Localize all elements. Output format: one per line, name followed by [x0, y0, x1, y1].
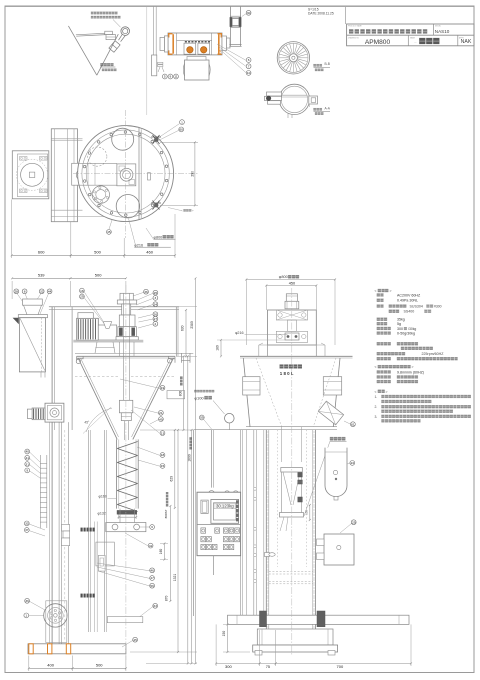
title text (product name faux CJK)	[349, 29, 353, 33]
front: ladder	[39, 455, 41, 528]
front: hopper body	[19, 318, 45, 372]
svg-text:DRAWING NO: DRAWING NO	[348, 36, 360, 39]
front: tube bottom outlet	[119, 509, 121, 523]
front: tube bottom dark band	[117, 510, 137, 514]
spec: filling method	[377, 342, 380, 345]
left vertical plate	[152, 55, 157, 76]
svg-text:30: 30	[247, 11, 251, 15]
front: rail verticals	[58, 422, 60, 652]
front: auger spiral	[117, 442, 137, 512]
front: 45deg angle arc	[86, 408, 112, 432]
svg-text:13: 13	[161, 431, 165, 435]
svg-text:539: 539	[38, 273, 45, 278]
svg-text:630: 630	[181, 325, 185, 331]
suction pipe vertical lines	[152, 7, 154, 56]
svg-text:...: ...	[414, 40, 417, 44]
front: small hopper top-left	[23, 299, 43, 305]
side: chute (slanted)	[318, 401, 343, 425]
svg-text:800ST: 800ST	[164, 509, 168, 518]
right shaft	[222, 36, 227, 51]
plan: box inner circle	[21, 163, 44, 186]
svg-text:33: 33	[25, 522, 29, 526]
balloon 5	[162, 74, 167, 79]
side: vacuum vessel capsule	[325, 448, 347, 497]
svg-text:41: 41	[25, 456, 29, 460]
side: 150 dim base	[227, 624, 229, 652]
svg-text:47: 47	[150, 576, 154, 580]
svg-text:225rpm/60HZ: 225rpm/60HZ	[422, 352, 445, 356]
balloon 30	[246, 10, 251, 15]
balloon 45	[133, 637, 138, 642]
plan: clamp symbol bottom right	[151, 201, 161, 210]
title block outer	[347, 24, 474, 46]
side: arm bar at base	[228, 615, 410, 624]
svg-text:29: 29	[80, 295, 84, 299]
svg-text:56: 56	[150, 584, 154, 588]
svg-text:B-B: B-B	[325, 62, 330, 66]
svg-text:32: 32	[40, 289, 44, 293]
balloon 56	[150, 583, 155, 588]
svg-text:/30kg: /30kg	[408, 327, 416, 331]
balloon 61	[351, 422, 356, 427]
svg-text:34: 34	[154, 302, 158, 306]
balloon 46	[150, 568, 155, 573]
clamp body small dark mark row	[185, 41, 210, 43]
motor under clamp body	[185, 60, 210, 80]
spec: sonota row	[389, 310, 392, 313]
svg-text:DATE 2008.11.25: DATE 2008.11.25	[308, 12, 334, 16]
svg-text:<: <	[375, 289, 377, 293]
front: bottom dim 400/500	[28, 656, 30, 672]
svg-text:44: 44	[48, 289, 52, 293]
front: top dim 539/500	[11, 281, 13, 299]
front: tank cone	[78, 358, 117, 439]
svg-text:φ216: φ216	[235, 331, 244, 335]
panel display unit	[211, 500, 239, 524]
balloon 7	[246, 64, 251, 69]
side: left frame rails	[240, 430, 242, 615]
plan: bottom dimension 600/500/460	[11, 200, 13, 259]
svg-text:700: 700	[337, 664, 344, 669]
side: frame lower block	[276, 331, 307, 342]
svg-text:500: 500	[96, 663, 103, 668]
svg-text:15: 15	[161, 464, 165, 468]
detail note text: tank SUS eyebolt	[91, 12, 93, 14]
svg-text:49: 49	[159, 417, 163, 421]
side: bottom dims 300/75/700	[215, 624, 217, 666]
svg-text:29: 29	[352, 520, 356, 524]
title block row divider	[347, 34, 474, 36]
plan: flange bolt dots	[83, 131, 168, 217]
balloon 25	[153, 290, 158, 295]
plan: tank outer circle	[78, 126, 174, 222]
svg-text:460: 460	[146, 250, 153, 255]
panel pole below	[213, 556, 215, 575]
side: base plate	[253, 645, 338, 652]
balloon 18	[160, 453, 165, 458]
svg-text:28: 28	[15, 289, 19, 293]
plan: lift column rect	[51, 129, 77, 222]
svg-text:SS400: SS400	[404, 310, 415, 314]
pipe lower flange	[229, 44, 241, 46]
svg-text:500: 500	[95, 273, 102, 278]
balloon 21	[159, 410, 164, 415]
front: right sensor bracket	[167, 391, 185, 399]
duct circle	[225, 413, 235, 423]
front: auger tube	[116, 439, 118, 508]
svg-text:NAK: NAK	[461, 39, 472, 45]
side: lower column walls with rivets	[265, 430, 267, 643]
svg-text:φ800: φ800	[279, 274, 289, 279]
svg-text:9.8m/min (60HZ): 9.8m/min (60HZ)	[397, 370, 424, 374]
balloon 24	[350, 461, 355, 466]
front: main frame verticals	[51, 307, 53, 652]
front: carriage dark block upper	[81, 528, 95, 532]
plan: top inlet circle	[112, 128, 134, 150]
svg-text:>: >	[390, 289, 392, 293]
svg-text:>: >	[412, 365, 414, 369]
balloon 1	[180, 120, 185, 125]
front: hopper corner dark wedge	[13, 318, 19, 325]
side: clamp assembly inside column	[281, 468, 303, 473]
balloon 36	[25, 598, 30, 603]
balloon 36	[144, 289, 149, 294]
balloon 19	[160, 385, 165, 390]
svg-text:1: 1	[25, 614, 27, 618]
svg-text:63: 63	[153, 604, 157, 608]
duct note text	[194, 390, 196, 392]
side: pedestal	[257, 629, 333, 645]
svg-text:<: <	[375, 365, 377, 369]
front: support trapezoid	[95, 342, 115, 353]
side: tank capacity text	[280, 365, 284, 369]
front: long thin rect	[107, 617, 143, 623]
front: spindle housing to plate	[119, 342, 121, 356]
svg-text:600: 600	[38, 250, 45, 255]
plan: center lines	[73, 173, 199, 175]
eyebolt shaft	[119, 34, 126, 41]
svg-text:5g: 5g	[397, 322, 401, 326]
balloon 44	[47, 289, 52, 294]
svg-text:45: 45	[107, 230, 111, 234]
leader to duct circle	[213, 401, 225, 415]
svg-text:A-A: A-A	[325, 106, 331, 110]
clamp body orange corner gussets	[168, 33, 222, 55]
clamp B-B view (radial) outer circle	[277, 42, 309, 74]
clamp orange roller left	[187, 47, 193, 53]
svg-text:150: 150	[222, 631, 226, 637]
side: box brackets	[317, 539, 325, 546]
side: tank flange rings	[243, 377, 260, 395]
svg-text:21: 21	[159, 411, 163, 415]
svg-text:800: 800	[178, 391, 182, 397]
leader to eyebolt	[113, 20, 121, 28]
plan: bracket arm inside circle	[78, 162, 117, 164]
svg-text:<: <	[375, 390, 377, 394]
plan: bottom inlet circle	[116, 195, 139, 218]
front: center shaft	[122, 293, 124, 400]
svg-text:35kg: 35kg	[397, 318, 405, 322]
svg-text:2380: 2380	[190, 321, 194, 329]
svg-text:AC200V 60HZ: AC200V 60HZ	[397, 293, 421, 297]
A-A actuator dark nut	[266, 96, 271, 101]
balloon 28	[14, 289, 19, 294]
side: right control box	[324, 534, 354, 565]
front: spindle dark bands	[119, 328, 122, 336]
front: gearbox right of motor	[98, 325, 116, 340]
A-A lower stem	[287, 114, 289, 119]
svg-text:8: 8	[24, 289, 26, 293]
svg-text:5: 5	[164, 75, 166, 79]
front: sprocket circle	[44, 604, 67, 627]
balloon 49	[159, 417, 164, 422]
left end cap	[164, 36, 168, 52]
plan: left motor mount box	[12, 151, 49, 199]
svg-text:NAME: NAME	[410, 36, 416, 39]
front: motor hatched	[77, 318, 99, 340]
svg-text:0-50g/30kg: 0-50g/30kg	[397, 332, 415, 336]
svg-text:40: 40	[25, 450, 29, 454]
side: frame box	[268, 310, 317, 345]
balloon 1	[24, 613, 29, 618]
plan: tank bolt circle	[82, 130, 169, 217]
svg-text:MODEL: MODEL	[435, 25, 441, 27]
svg-text:59: 59	[200, 416, 204, 420]
plan: chord door line	[138, 128, 140, 220]
svg-text:290: 290	[190, 171, 194, 177]
front: clamp circles on plate	[76, 359, 80, 363]
svg-text:11: 11	[174, 75, 177, 79]
svg-text:APM800: APM800	[365, 39, 391, 46]
svg-text:1: 1	[181, 120, 183, 124]
side: flange at 426	[246, 426, 337, 428]
front: clamp arm horizontal	[106, 523, 146, 532]
clamp orange roller right	[201, 47, 207, 53]
clamp body inner lines	[176, 33, 178, 55]
B-B label	[314, 64, 316, 66]
eyebolt ring	[121, 27, 130, 36]
svg-text:180: 180	[216, 345, 220, 351]
panel mid divider	[197, 524, 241, 526]
side: inner dotted tube	[277, 430, 279, 567]
title area left divider	[345, 7, 347, 24]
side: latch left edge	[265, 553, 270, 557]
side: 180 dim left	[220, 340, 222, 356]
svg-text:42: 42	[149, 544, 153, 548]
side: arm dark caps	[260, 611, 267, 627]
front: orange feet	[29, 644, 33, 654]
balloon 32	[39, 289, 44, 294]
leaders for mid balloons	[120, 379, 160, 389]
pipe coupling dark bands	[230, 17, 232, 26]
front: tank top plate	[75, 352, 193, 354]
svg-text:37: 37	[25, 528, 29, 532]
A-A chord lines	[282, 94, 308, 96]
panel top bumps	[209, 491, 238, 493]
svg-text:870: 870	[164, 595, 168, 601]
front: hopper outlet	[40, 372, 42, 378]
svg-text:24: 24	[351, 461, 355, 465]
title block col dividers row2	[407, 35, 409, 46]
svg-text:26: 26	[154, 312, 158, 316]
plan: box corner bolts	[20, 157, 28, 161]
radial spokes	[279, 43, 308, 72]
balloon 13	[160, 431, 165, 436]
svg-text:31: 31	[25, 462, 29, 466]
plan: flanged small circle	[92, 186, 109, 203]
balloon 6	[246, 58, 251, 63]
spec: material row	[377, 305, 380, 308]
svg-text:75: 75	[266, 665, 270, 669]
side: inner cone dotted	[256, 358, 282, 427]
front: mid box on column	[96, 542, 114, 566]
panel main box	[197, 492, 241, 556]
front: base bar	[28, 644, 126, 654]
svg-text:400: 400	[47, 663, 54, 668]
balloon 9	[168, 74, 173, 79]
svg-text:>: >	[386, 390, 388, 394]
svg-text:10: 10	[247, 71, 251, 75]
side: vacuum text	[330, 437, 333, 440]
svg-text:1321: 1321	[173, 574, 177, 582]
svg-text:300: 300	[225, 664, 232, 669]
svg-text:2.: 2.	[375, 405, 378, 409]
side: frame top section with bolts	[276, 310, 307, 320]
svg-text:18: 18	[80, 289, 84, 293]
balloon 42	[148, 543, 153, 548]
tank cone top edge	[76, 33, 106, 35]
svg-text:NAS10: NAS10	[435, 29, 450, 34]
front: spindle column stack	[120, 293, 133, 300]
detail label: shousai 2	[101, 63, 104, 66]
balloon 29	[80, 294, 85, 299]
svg-text:500: 500	[94, 250, 101, 255]
svg-text:60: 60	[179, 128, 183, 132]
front: left lift drive unit	[45, 403, 64, 422]
balloon 60	[179, 127, 184, 132]
front: mini hopper on gearbox	[103, 322, 111, 329]
front: sprocket housing	[46, 601, 67, 643]
table line between views	[194, 429, 250, 431]
svg-text:160: 160	[159, 549, 163, 555]
balloon 34	[153, 302, 158, 307]
balloon 31	[25, 462, 30, 467]
balloon 63	[153, 603, 158, 608]
tank cone left slope	[68, 26, 96, 75]
lid clamp bracket	[105, 31, 113, 34]
svg-text:SUS304: SUS304	[410, 305, 423, 309]
side: center line	[291, 288, 293, 655]
front: dim extension horizontals	[179, 306, 197, 308]
plan: center auger assembly	[117, 164, 136, 186]
clamp A-A view outer circle	[279, 84, 309, 114]
balloon 9	[25, 468, 30, 473]
front: hidden flange dashes	[75, 376, 119, 378]
svg-text:36: 36	[144, 290, 148, 294]
svg-text:36: 36	[25, 599, 29, 603]
A-A label	[314, 108, 316, 110]
balloon 37	[24, 528, 29, 533]
svg-text:18: 18	[161, 453, 165, 457]
front: bracket piece far right	[182, 353, 191, 363]
svg-text:3: 3	[155, 296, 157, 300]
svg-text:2: 2	[155, 322, 157, 326]
front: center line	[125, 285, 127, 660]
balloon 10	[246, 71, 251, 76]
svg-text:30.123kg: 30.123kg	[216, 504, 234, 509]
front: tank clamp bracket right	[169, 356, 176, 363]
balloon 59	[199, 415, 204, 420]
side: dashed lines across column	[269, 571, 313, 573]
clamp assembly main body outline	[168, 33, 222, 55]
svg-text:1600: 1600	[188, 454, 192, 462]
front: shaft lower	[123, 421, 125, 440]
svg-text:450: 450	[289, 282, 295, 286]
svg-text:9: 9	[170, 75, 172, 79]
clamp body inner squares	[184, 43, 196, 54]
leaders to balloons 6 7 10	[217, 44, 246, 61]
side: tank top plate	[240, 355, 353, 357]
plan: bracket arm to tank	[72, 163, 118, 185]
border heavy top edge	[5, 6, 474, 8]
front: carriage blocks	[62, 525, 70, 532]
plan: door handle	[148, 173, 151, 180]
front: frame top rails	[49, 306, 179, 308]
panel pole	[211, 430, 213, 488]
balloon 15	[160, 464, 165, 469]
title block col divider row1	[433, 24, 435, 35]
eyebolt nut body (tilted)	[109, 41, 120, 53]
A-A right bracket	[309, 96, 318, 104]
svg-text:45°: 45°	[84, 421, 90, 425]
plan: left dashed circle	[88, 147, 107, 166]
side: motor top	[286, 294, 297, 302]
svg-text:27: 27	[154, 317, 158, 321]
tank cone right slope	[97, 34, 119, 75]
svg-text:1.: 1.	[375, 395, 378, 399]
balloon 40	[25, 449, 30, 454]
panel buttons row1	[201, 528, 206, 533]
balloon 18	[80, 288, 85, 293]
balloon 27	[153, 316, 158, 321]
svg-text:45: 45	[133, 638, 137, 642]
balloon 47	[150, 576, 155, 581]
balloon 2	[153, 321, 158, 326]
svg-text:φ100: φ100	[194, 395, 204, 400]
svg-text:46: 46	[150, 568, 154, 572]
plan: 290 dimension	[160, 141, 198, 143]
panel left slot	[201, 500, 208, 513]
panel buttons row3	[201, 544, 206, 549]
side: legs outer	[259, 343, 325, 345]
svg-text:φ800: φ800	[154, 235, 163, 239]
left plate bolt rows	[158, 62, 163, 64]
panel display text	[214, 503, 236, 509]
balloon 29	[351, 520, 356, 525]
side: frame mid column	[288, 320, 297, 331]
svg-text:629: 629	[169, 476, 173, 482]
balloon 26	[153, 312, 158, 317]
A-A left actuator	[267, 92, 282, 96]
svg-text:3.: 3.	[375, 415, 378, 419]
front: platform under motor	[73, 339, 143, 341]
balloon 11	[174, 74, 179, 79]
svg-text:9: 9	[26, 469, 28, 473]
svg-text:19: 19	[161, 386, 165, 390]
front: carriage dark block lower	[81, 594, 95, 598]
panel buttons row2	[201, 537, 206, 542]
balloon 33	[24, 521, 29, 526]
